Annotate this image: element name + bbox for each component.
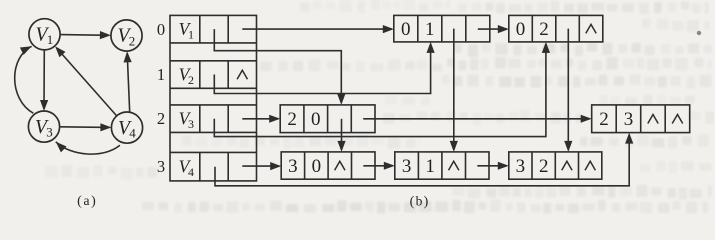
svg-text:1: 1: [425, 156, 435, 177]
edge V3->V1 (curved): [15, 46, 34, 113]
svg-text:2: 2: [599, 109, 609, 130]
svg-text:1: 1: [157, 65, 165, 84]
vertex node row 2 box (V3): [170, 105, 257, 132]
edge V4->V1: [55, 46, 116, 116]
vertex circle V2: [111, 20, 142, 51]
pointer arc(2,0) hlink -> arc(3,0): [337, 119, 345, 152]
edge V3->V4: [60, 123, 112, 131]
svg-text:2: 2: [129, 33, 136, 48]
svg-text:0: 0: [516, 19, 526, 40]
vertex node row 3 box (V4): [170, 152, 257, 181]
svg-text:0: 0: [157, 20, 165, 39]
pointer arc(2,0) tlink -> arc(2,3): [363, 115, 592, 123]
svg-text:3: 3: [288, 156, 298, 177]
array index label 3: [157, 157, 165, 176]
svg-text:1: 1: [188, 27, 194, 41]
vertex circle V4: [111, 112, 142, 143]
vertex data V3: [179, 109, 194, 131]
vertex data V2: [179, 64, 194, 87]
label (a): [77, 193, 96, 209]
stray ink dot: [697, 31, 701, 35]
svg-text:3: 3: [188, 117, 194, 131]
svg-text:a: a: [84, 193, 90, 208]
svg-text:3: 3: [624, 109, 634, 130]
arc node (0,1): [394, 15, 490, 42]
edge V4->V2: [124, 51, 132, 112]
vertex data V4: [179, 157, 194, 179]
svg-text:2: 2: [287, 109, 297, 130]
svg-text:3: 3: [516, 156, 526, 177]
vertex node row 1 box (V2): [170, 61, 257, 89]
svg-text:4: 4: [129, 125, 136, 140]
pointer V2 firstin -> arc(0,1): [214, 42, 434, 94]
vertex circle V3: [28, 111, 59, 142]
arc node (0,2): [509, 15, 603, 42]
arc node (3,1): [395, 152, 489, 179]
svg-text:(: (: [77, 194, 82, 209]
pointer V1 firstout -> arc(0,1): [242, 25, 393, 33]
pointer V3 firstin -> arc(0,2): [214, 42, 550, 137]
edge V1->V3: [40, 50, 48, 111]
edge V4->V3 (curved): [56, 142, 120, 154]
pointer V1 firstin -> arc(2,0): [214, 29, 345, 105]
vertex node row 0 box (V1): [170, 15, 257, 43]
svg-text:2: 2: [157, 109, 165, 128]
svg-text:0: 0: [312, 156, 322, 177]
array index label 2: [157, 109, 165, 128]
svg-text:3: 3: [402, 156, 412, 177]
vertex data V1: [179, 19, 194, 41]
svg-text:0: 0: [401, 19, 411, 40]
pointer V3 firstout -> arc(2,0): [242, 115, 280, 123]
svg-text:): ): [424, 194, 429, 209]
svg-text:1: 1: [425, 19, 435, 40]
svg-text:): ): [91, 194, 96, 209]
pointer arc(3,1) tlink -> arc(3,2): [477, 162, 509, 170]
arc node (3,2): [509, 152, 602, 179]
svg-text:2: 2: [539, 156, 549, 177]
svg-text:3: 3: [46, 124, 53, 139]
pointer V4 firstout -> arc(3,0): [242, 162, 281, 170]
svg-text:0: 0: [311, 109, 321, 130]
edge V1->V2: [60, 31, 111, 39]
arc node (2,3): [592, 105, 690, 133]
svg-text:1: 1: [47, 32, 54, 47]
array index label 1: [157, 65, 165, 84]
svg-text:2: 2: [539, 19, 549, 40]
svg-text:3: 3: [157, 157, 165, 176]
array index label 0: [157, 20, 165, 39]
pointer arc(0,1) tlink -> arc(0,2): [478, 25, 509, 33]
arc node (3,0): [281, 152, 375, 179]
svg-text:(: (: [410, 194, 415, 209]
pointer V4 firstin -> arc(2,3): [215, 133, 633, 186]
vertex circle V1: [29, 19, 60, 50]
svg-text:b: b: [416, 193, 423, 208]
svg-text:4: 4: [188, 165, 194, 179]
pointer arc(0,1) hlink -> arc(3,1): [450, 29, 458, 152]
vertex array outer box: [170, 15, 257, 181]
arc node (2,0): [280, 105, 375, 133]
label (b): [410, 193, 429, 209]
null firstout of V2: [237, 70, 247, 79]
pointer arc(3,0) tlink -> arc(3,1): [363, 162, 395, 170]
pointer arc(0,2) hlink -> arc(3,2): [564, 29, 572, 152]
svg-text:2: 2: [188, 73, 194, 87]
